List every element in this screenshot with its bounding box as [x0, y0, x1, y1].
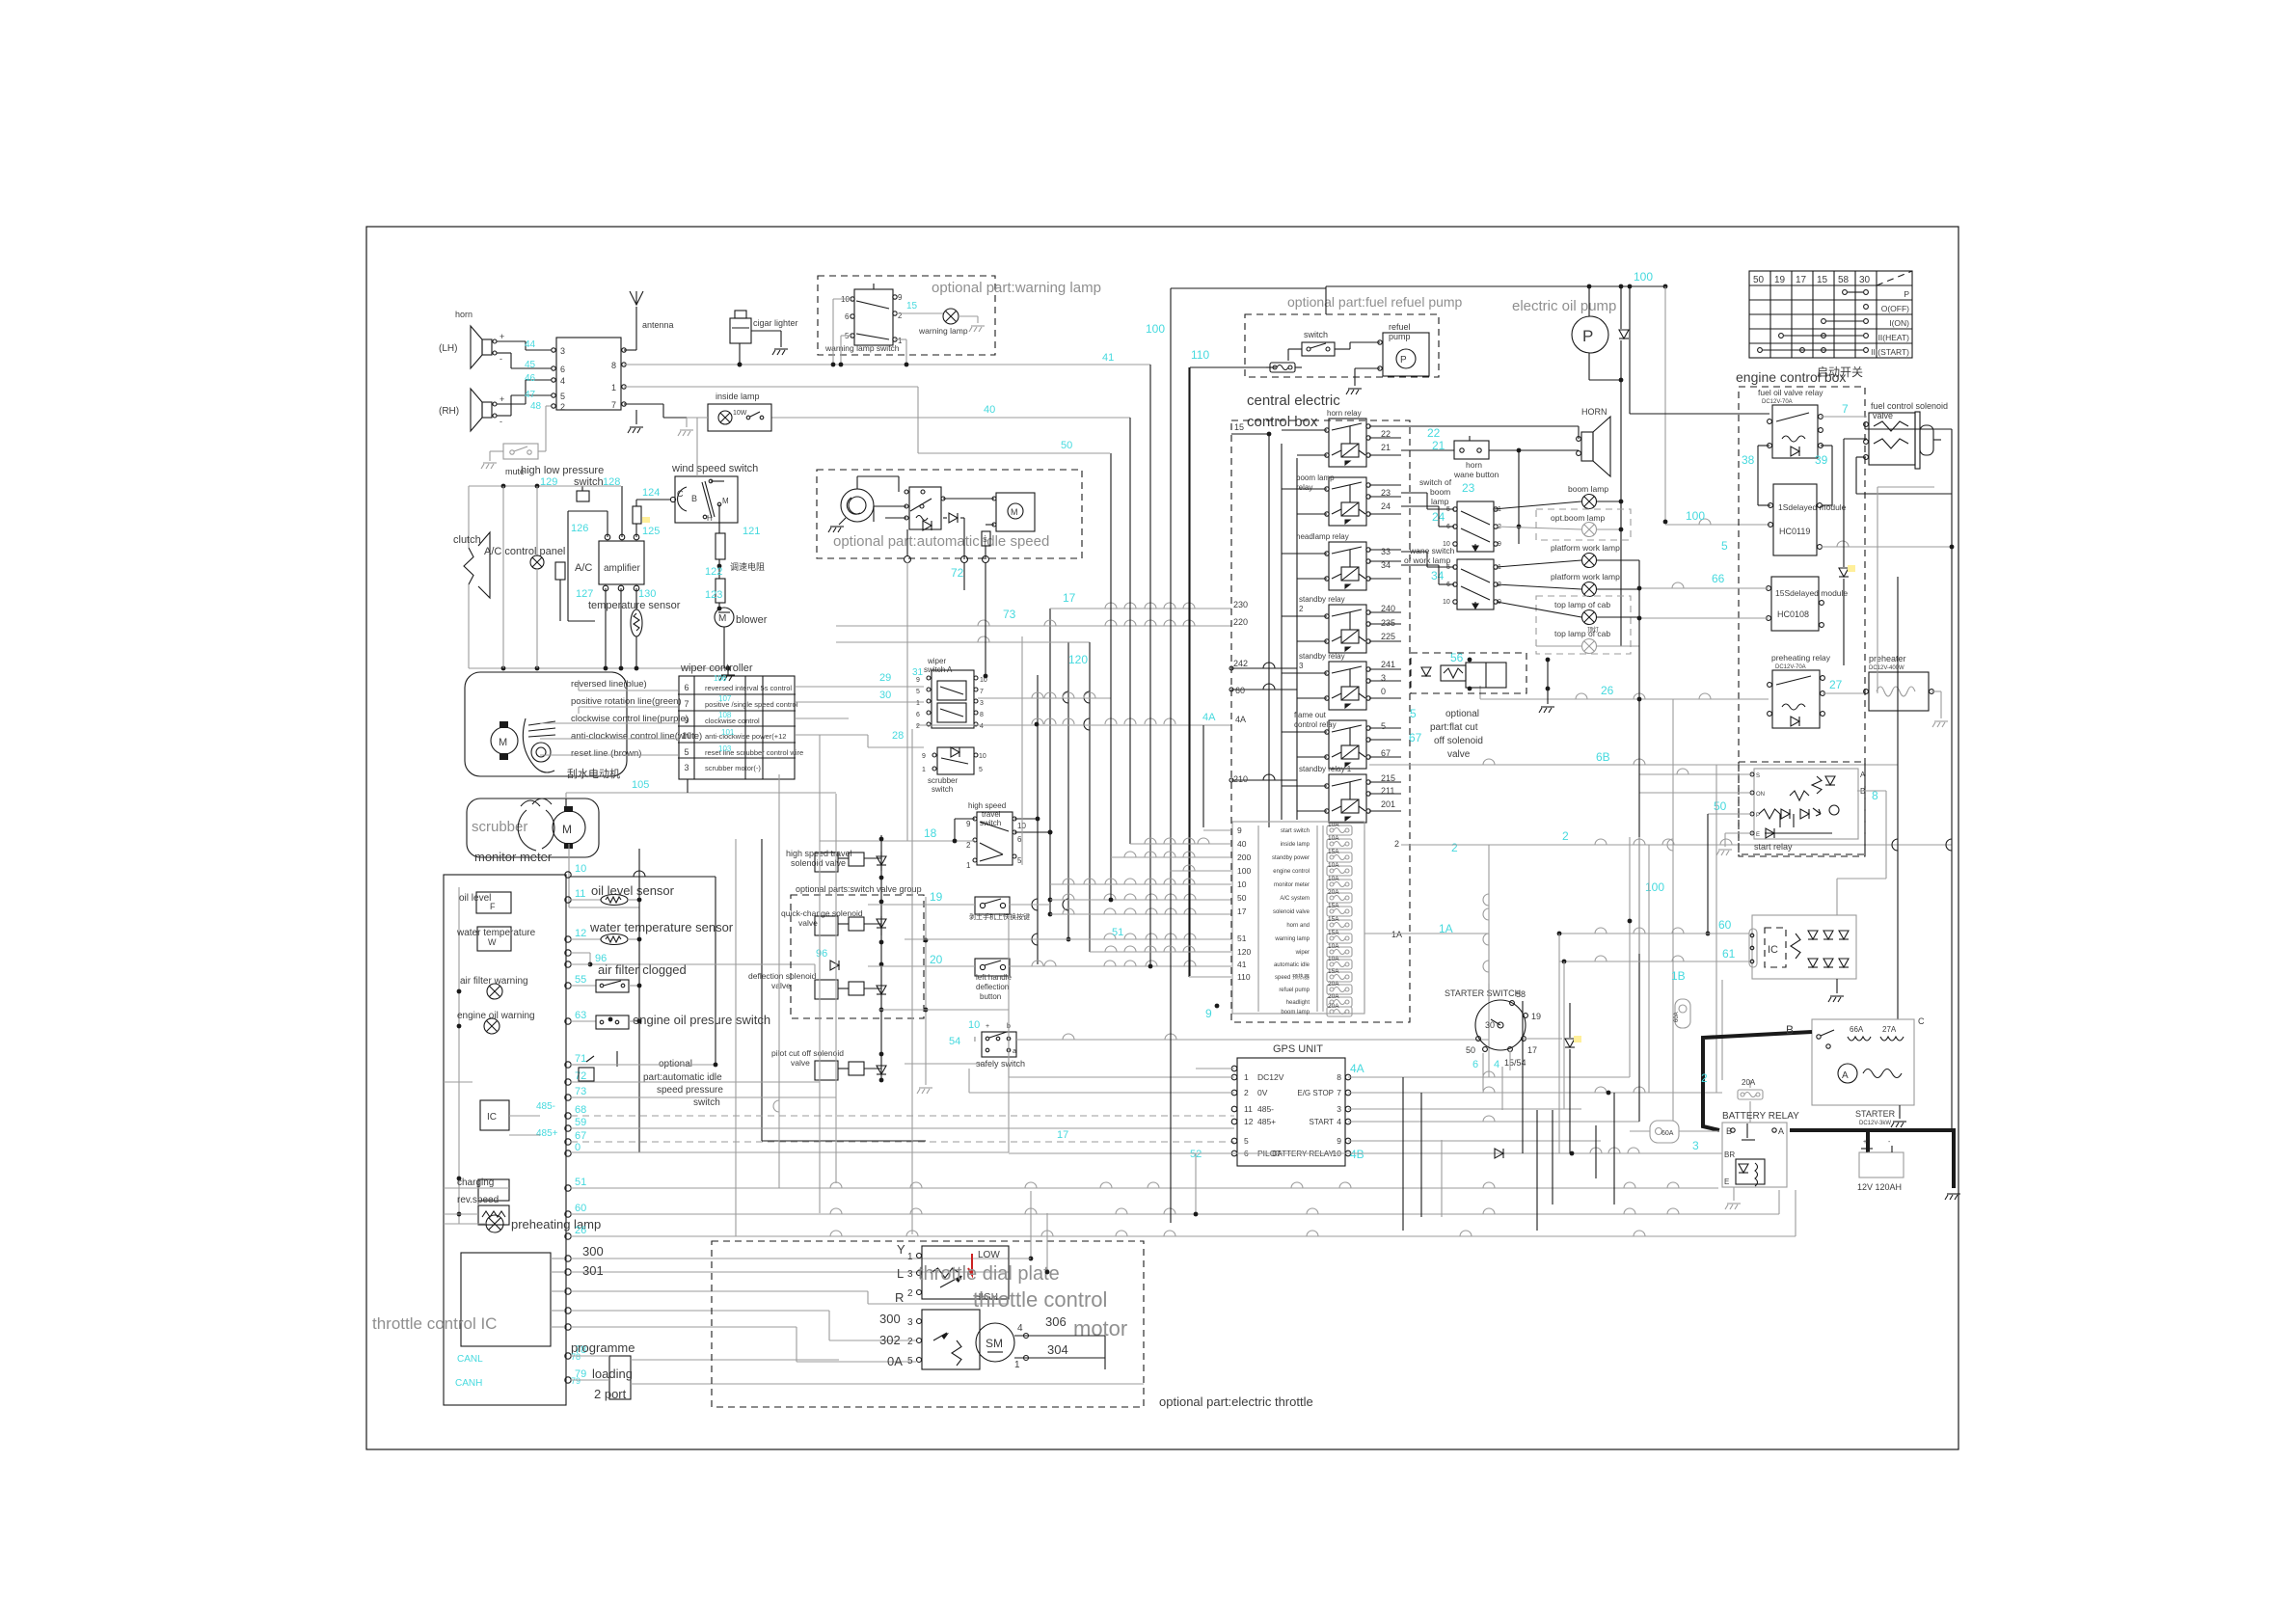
svg-text:valve: valve — [791, 1058, 810, 1068]
svg-text:speed 预热器: speed 预热器 — [1275, 973, 1310, 981]
svg-text:preheater: preheater — [1869, 654, 1906, 663]
GPS right wires — [1348, 1076, 1630, 1078]
svg-text:part:flat cut: part:flat cut — [1430, 722, 1478, 733]
amplifier bottom wires — [605, 588, 607, 668]
svg-text:15A: 15A — [1328, 968, 1339, 975]
svg-text:485-: 485- — [1257, 1104, 1274, 1114]
vertical bus x1060 — [1021, 636, 1023, 865]
svg-text:4A: 4A — [1235, 715, 1246, 724]
svg-text:60: 60 — [575, 1203, 586, 1214]
svg-text:B: B — [691, 494, 697, 503]
svg-text:45: 45 — [525, 360, 536, 370]
svg-text:M: M — [722, 497, 729, 505]
engine box bottom wires — [1639, 773, 1752, 775]
svg-text:15A: 15A — [1328, 903, 1339, 909]
svg-text:R: R — [895, 1290, 904, 1305]
svg-text:5: 5 — [1721, 539, 1728, 553]
svg-text:safely switch: safely switch — [976, 1059, 1025, 1069]
svg-text:123: 123 — [705, 589, 722, 601]
lamp collector vertical — [1638, 560, 1640, 1122]
svg-text:125: 125 — [642, 526, 660, 537]
start relay dashed box — [1739, 762, 1865, 854]
IC wires — [509, 1115, 540, 1117]
svg-text:oil level sensor: oil level sensor — [591, 883, 675, 898]
wire 71 72 73 runs — [571, 1064, 716, 1066]
wire 22 to horn — [1401, 425, 1579, 427]
1S delayed module — [1773, 484, 1817, 555]
svg-text:1: 1 — [907, 1252, 913, 1262]
bus row 120 — [836, 641, 1090, 643]
svg-text:101: 101 — [721, 728, 735, 737]
wind speed switch — [675, 476, 738, 523]
60A fusible link — [1650, 1121, 1679, 1143]
svg-text:S: S — [983, 537, 987, 544]
svg-text:platform work lamp: platform work lamp — [1551, 572, 1620, 582]
svg-text:20A: 20A — [1328, 889, 1339, 896]
svg-text:1: 1 — [1014, 1360, 1020, 1370]
opt boom lamp dashed — [1536, 509, 1631, 540]
vertical x763 — [735, 839, 737, 1236]
throttle control IC box — [461, 1253, 551, 1346]
svg-text:opt.boom lamp: opt.boom lamp — [1551, 513, 1605, 523]
svg-text:refuel: refuel — [1389, 322, 1411, 332]
svg-text:4A: 4A — [1350, 1062, 1364, 1075]
20A fuse — [1738, 1090, 1763, 1099]
bus row 73-220 — [836, 625, 1231, 627]
svg-text:B: B — [1786, 1023, 1794, 1037]
fuse panel verticals — [1316, 826, 1318, 1012]
svg-text:9: 9 — [1205, 1007, 1212, 1020]
svg-text:39: 39 — [1815, 453, 1828, 467]
wire 41 run (radio pin8 bus) — [624, 364, 1150, 365]
svg-text:4: 4 — [560, 376, 565, 386]
svg-text:charging: charging — [457, 1177, 494, 1188]
optional electric throttle dashed box — [712, 1241, 1144, 1407]
svg-text:48: 48 — [530, 401, 542, 412]
radio unit — [556, 338, 621, 410]
optional automatic idle dashed box — [817, 470, 1082, 558]
svg-text:wiper: wiper — [1295, 950, 1310, 956]
black vertical x1089 — [1049, 609, 1051, 914]
svg-text:preheating lamp: preheating lamp — [511, 1217, 601, 1232]
svg-text:4: 4 — [1494, 1059, 1499, 1070]
svg-text:230: 230 — [1233, 600, 1248, 609]
svg-text:A/C control panel: A/C control panel — [484, 546, 565, 557]
solenoid valve bottom wire — [1856, 456, 1866, 458]
svg-text:29: 29 — [879, 672, 891, 684]
ground cigar lighter area — [751, 330, 781, 332]
svg-text:E/G STOP: E/G STOP — [1297, 1089, 1334, 1097]
svg-text:6: 6 — [916, 712, 920, 718]
svg-text:button: button — [980, 992, 1001, 1001]
svg-text:15Sdelayed module: 15Sdelayed module — [1775, 588, 1848, 598]
svg-text:air filter clogged: air filter clogged — [598, 962, 687, 977]
wire 105 — [565, 798, 567, 810]
svg-text:66A: 66A — [1850, 1025, 1864, 1034]
wire horn LH+ to radio pin3 — [497, 340, 526, 342]
svg-text:50: 50 — [1714, 799, 1727, 813]
vertical bus x867 — [835, 794, 837, 1183]
svg-text:5: 5 — [560, 392, 565, 401]
svg-text:DC12V-70A: DC12V-70A — [1775, 664, 1806, 670]
wire row 1268 — [571, 1235, 1796, 1237]
svg-text:wiper controller: wiper controller — [680, 663, 753, 674]
battery relay box — [1722, 1123, 1787, 1187]
right vertical x1690 — [1629, 837, 1631, 1077]
svg-text:throttle dial plate: throttle dial plate — [918, 1263, 1060, 1285]
wiper controller box — [679, 676, 795, 779]
svg-text:warning lamp: warning lamp — [918, 326, 968, 336]
A/C panel lamp — [536, 486, 538, 556]
svg-text:ON: ON — [1756, 792, 1765, 798]
svg-text:10: 10 — [575, 863, 586, 875]
svg-text:23: 23 — [1462, 481, 1475, 495]
svg-text:60: 60 — [1718, 918, 1732, 932]
svg-text:110: 110 — [1191, 348, 1209, 362]
svg-text:wane button: wane button — [1453, 470, 1499, 479]
svg-text:121: 121 — [743, 526, 760, 537]
fuel oil valve relay loops — [1758, 445, 1769, 447]
96 jumper — [571, 952, 590, 954]
svg-text:travel: travel — [982, 810, 1001, 819]
svg-text:3: 3 — [560, 346, 565, 356]
gps drop verticals — [1522, 1001, 1524, 1153]
svg-text:9: 9 — [1237, 826, 1242, 835]
svg-text:20A: 20A — [1328, 981, 1339, 988]
svg-text:12: 12 — [1244, 1117, 1254, 1126]
svg-text:LOW: LOW — [978, 1250, 1000, 1260]
clutch — [464, 548, 473, 584]
svg-text:1: 1 — [916, 700, 920, 707]
pressure switch symbol — [577, 491, 589, 501]
svg-text:105: 105 — [632, 779, 649, 791]
svg-text:optional part:warning lamp: optional part:warning lamp — [932, 280, 1101, 296]
warning lamp — [943, 309, 959, 324]
right vertical x1735 — [1672, 699, 1674, 1121]
svg-text:switch: switch — [932, 785, 953, 794]
svg-text:215: 215 — [1381, 773, 1395, 783]
svg-text:M: M — [499, 737, 507, 748]
svg-text:20: 20 — [930, 953, 943, 966]
svg-text:26: 26 — [1601, 684, 1614, 697]
wire 34 relay to work switch — [1401, 564, 1439, 566]
svg-text:HC0108: HC0108 — [1777, 609, 1809, 619]
svg-text:300: 300 — [879, 1312, 901, 1326]
svg-text:wane switch: wane switch — [1409, 546, 1455, 555]
svg-text:6: 6 — [684, 683, 689, 692]
svg-text:50: 50 — [1466, 1045, 1475, 1055]
svg-text:304: 304 — [1047, 1342, 1068, 1357]
svg-text:anti-clockwise control line(wh: anti-clockwise control line(white) — [571, 731, 702, 742]
svg-text:wiper: wiper — [927, 657, 946, 665]
svg-text:103: 103 — [718, 744, 732, 753]
svg-text:5: 5 — [1446, 506, 1450, 513]
thick wire B — [1703, 1032, 1812, 1130]
svg-text:0: 0 — [1381, 687, 1386, 696]
svg-text:switch: switch — [1304, 330, 1328, 339]
svg-text:HC0119: HC0119 — [1779, 527, 1810, 536]
GPS left pins — [1231, 1074, 1237, 1080]
svg-text:306: 306 — [1045, 1314, 1067, 1329]
svg-text:III(START): III(START) — [1871, 347, 1909, 357]
rev speed box — [478, 1205, 509, 1225]
right vertical x1968 — [1897, 577, 1899, 1019]
svg-text:22: 22 — [1381, 429, 1391, 439]
svg-text:I(ON): I(ON) — [1889, 318, 1909, 328]
stub 242 — [1231, 667, 1297, 669]
svg-text:30: 30 — [1485, 1020, 1495, 1030]
svg-text:headlamp relay: headlamp relay — [1296, 532, 1349, 541]
svg-text:optional part:automatic idle s: optional part:automatic idle speed — [833, 533, 1049, 550]
travel switch wires — [820, 840, 975, 842]
svg-text:reversed interval 5s control: reversed interval 5s control — [705, 684, 792, 692]
svg-text:11: 11 — [575, 888, 585, 900]
valve group vertical — [880, 835, 882, 1080]
central box dashed outline — [1231, 420, 1410, 1022]
svg-text:顶灯: 顶灯 — [1587, 626, 1599, 634]
wire 8 from B — [1857, 790, 1886, 792]
svg-text:part:automatic idle: part:automatic idle — [643, 1072, 722, 1083]
svg-text:reversed line(blue): reversed line(blue) — [571, 679, 647, 690]
optional warning lamp dashed box — [818, 276, 995, 355]
svg-text:1: 1 — [922, 767, 926, 773]
monitor inner rail — [458, 887, 460, 1224]
svg-text:100: 100 — [1634, 270, 1653, 284]
wire horn RH- to radio pin5 — [497, 415, 511, 417]
optional fuel refuel pump dashed box — [1245, 314, 1439, 377]
gray vertical x1727 — [1664, 286, 1666, 522]
svg-text:(RH): (RH) — [439, 406, 459, 417]
svg-text:15A: 15A — [1328, 849, 1339, 855]
svg-text:2: 2 — [1451, 841, 1458, 854]
svg-text:235: 235 — [1381, 618, 1395, 628]
svg-text:100: 100 — [1146, 322, 1165, 336]
svg-text:6: 6 — [1472, 1059, 1478, 1070]
svg-text:inside lamp: inside lamp — [716, 392, 760, 401]
svg-text:A: A — [1842, 1070, 1849, 1081]
svg-text:2: 2 — [898, 311, 903, 320]
svg-text:9: 9 — [898, 293, 903, 302]
svg-text:clockwise control: clockwise control — [705, 717, 760, 725]
svg-text:4: 4 — [1337, 1117, 1341, 1126]
idle fuse S — [982, 531, 990, 546]
svg-text:warning lamp: warning lamp — [1274, 936, 1310, 942]
svg-text:lamp: lamp — [1431, 497, 1449, 506]
svg-text:3: 3 — [980, 700, 984, 707]
svg-text:9: 9 — [1337, 1136, 1341, 1146]
label 19 and button — [975, 897, 1010, 914]
svg-text:F: F — [490, 902, 496, 911]
vertical x790 — [761, 839, 763, 1141]
SM pin4 wire — [1024, 1334, 1029, 1339]
svg-text:108: 108 — [718, 711, 732, 719]
svg-text:5: 5 — [1381, 721, 1386, 731]
svg-text:10: 10 — [1237, 880, 1247, 889]
svg-text:2: 2 — [966, 841, 971, 850]
svg-text:10: 10 — [979, 753, 986, 760]
svg-text:4: 4 — [1017, 1323, 1023, 1334]
ground radio pin7 stub — [635, 410, 637, 424]
svg-text:optional parts:switch valve gr: optional parts:switch valve group — [796, 884, 922, 894]
svg-text:58: 58 — [1838, 275, 1850, 285]
wire radio pin7 to inside lamp — [624, 403, 663, 405]
svg-text:10A: 10A — [1328, 956, 1339, 962]
wires controller right — [796, 686, 924, 688]
inside lamp box — [708, 404, 771, 431]
wire 50 into start relay — [1708, 813, 1752, 815]
svg-text:21: 21 — [1381, 443, 1391, 452]
svg-text:water temperature sensor: water temperature sensor — [589, 920, 734, 934]
central box left rail — [1268, 434, 1270, 827]
refuel fuse — [1270, 363, 1295, 372]
svg-text:67: 67 — [1409, 731, 1422, 744]
SM pin1 wire — [1024, 1356, 1029, 1361]
svg-text:+: + — [500, 332, 504, 341]
svg-text:air filter warning: air filter warning — [460, 976, 528, 987]
diode on wire 1195 — [1009, 1152, 1494, 1154]
svg-text:300: 300 — [582, 1244, 604, 1259]
svg-text:flame out: flame out — [1294, 711, 1327, 719]
svg-text:2: 2 — [560, 402, 565, 412]
svg-text:6: 6 — [1017, 835, 1022, 844]
svg-text:M: M — [1011, 507, 1018, 517]
bus rows mid 19 51 — [868, 904, 975, 906]
svg-text:start relay: start relay — [1754, 842, 1793, 852]
wire 27 — [1823, 692, 1866, 694]
485 bus dashed — [571, 1115, 1234, 1117]
svg-text:speed pressure: speed pressure — [657, 1085, 723, 1096]
svg-text:40: 40 — [1237, 839, 1247, 849]
relay left stubs — [1282, 429, 1327, 431]
svg-text:301: 301 — [582, 1263, 604, 1278]
svg-text:20A: 20A — [1742, 1078, 1756, 1087]
bus row 4A — [916, 724, 1231, 726]
starter box — [1812, 1019, 1914, 1105]
wiper motor assembly outline — [465, 672, 627, 776]
svg-text:51: 51 — [1237, 934, 1247, 943]
svg-text:485-: 485- — [536, 1101, 555, 1112]
svg-text:4A: 4A — [1202, 712, 1216, 723]
svg-text:scrubber: scrubber — [928, 776, 958, 785]
svg-text:horn relay: horn relay — [1327, 409, 1362, 418]
svg-text:9: 9 — [1498, 541, 1501, 548]
horn wane button — [1454, 441, 1489, 459]
fuse panel outline — [1232, 822, 1364, 1014]
svg-text:E: E — [1756, 832, 1760, 838]
charging box — [478, 1179, 509, 1201]
ground A/C — [719, 675, 735, 681]
A/C left rail clutch — [468, 486, 470, 548]
svg-text:control relay: control relay — [1294, 720, 1337, 729]
svg-text:2: 2 — [907, 1288, 913, 1299]
svg-text:refuel pump: refuel pump — [1279, 988, 1310, 993]
svg-text:-: - — [500, 354, 502, 364]
svg-text:Y: Y — [897, 1242, 905, 1257]
idle verticals down — [906, 562, 908, 841]
svg-text:2: 2 — [1562, 829, 1569, 843]
svg-text:1: 1 — [966, 861, 971, 870]
svg-text:wind speed switch: wind speed switch — [671, 463, 758, 474]
svg-text:0A: 0A — [887, 1354, 903, 1368]
monitor meter outline — [444, 875, 566, 1405]
svg-text:38: 38 — [1742, 453, 1755, 467]
svg-text:GPS UNIT: GPS UNIT — [1273, 1043, 1323, 1055]
wire 24 relay to boom switch — [1401, 505, 1439, 507]
svg-text:high speed travel: high speed travel — [786, 849, 852, 858]
svg-text:H: H — [707, 514, 713, 523]
svg-text:60: 60 — [1235, 686, 1245, 695]
monitor meter terminal column — [565, 872, 571, 878]
wire 26 run — [570, 1230, 572, 1232]
svg-text:positive rotation line(green): positive rotation line(green) — [571, 696, 682, 707]
wire switch to bus x1163 — [895, 338, 906, 340]
svg-text:horn: horn — [455, 310, 473, 319]
svg-text:100: 100 — [1686, 509, 1705, 523]
svg-text:S: S — [1756, 773, 1760, 779]
svg-text:START: START — [1310, 1118, 1335, 1126]
svg-text:20A: 20A — [1328, 993, 1339, 1000]
svg-text:33: 33 — [1381, 547, 1391, 556]
svg-text:3: 3 — [1692, 1139, 1699, 1152]
wire warning switch feeds — [833, 298, 852, 300]
svg-text:225: 225 — [1381, 632, 1395, 641]
svg-text:automatic idle: automatic idle — [1274, 962, 1310, 968]
svg-text:10A: 10A — [1328, 862, 1339, 869]
svg-text:standby relay: standby relay — [1299, 652, 1345, 661]
svg-text:27: 27 — [1829, 678, 1843, 691]
svg-text:high speed: high speed — [968, 801, 1006, 810]
wire 120 vertical — [1089, 642, 1091, 952]
throttle motor SM — [922, 1310, 980, 1369]
svg-text:switch: switch — [693, 1097, 720, 1108]
svg-text:30: 30 — [1859, 275, 1871, 285]
svg-text:0V: 0V — [1257, 1088, 1268, 1097]
svg-text:DC12V-70A: DC12V-70A — [1762, 399, 1793, 405]
svg-text:C: C — [1918, 1016, 1925, 1026]
ballast resistor 调速电阻 — [716, 533, 725, 559]
svg-text:3: 3 — [1381, 673, 1386, 683]
svg-text:34: 34 — [1381, 560, 1391, 570]
wire module out — [1822, 546, 1952, 548]
svg-text:1B: 1B — [1671, 969, 1686, 983]
wire 51 run — [571, 1187, 1718, 1189]
svg-text:211: 211 — [1381, 786, 1394, 796]
idle speed motor — [996, 493, 1035, 531]
svg-text:DC12V-3kW: DC12V-3kW — [1859, 1121, 1891, 1126]
svg-text:19: 19 — [1774, 275, 1786, 285]
svg-text:58: 58 — [1516, 989, 1526, 999]
wane switch of work lamp — [1453, 559, 1498, 609]
GPS right pins — [1345, 1074, 1351, 1080]
svg-text:18: 18 — [924, 826, 937, 840]
svg-text:switch of: switch of — [1419, 477, 1452, 487]
svg-text:monitor meter: monitor meter — [1274, 882, 1310, 888]
wiper wires motor-controller — [579, 690, 678, 691]
svg-text:7: 7 — [1842, 402, 1849, 416]
svg-text:9: 9 — [966, 820, 971, 828]
wire 110 corner — [1189, 367, 1191, 976]
alternator wires — [1559, 933, 1749, 934]
svg-text:63: 63 — [575, 1010, 586, 1021]
ground flat cut — [1547, 660, 1549, 704]
svg-text:17: 17 — [1063, 591, 1076, 605]
svg-text:240: 240 — [1381, 604, 1395, 613]
starter sw wires — [1488, 984, 1490, 1001]
svg-text:59: 59 — [575, 1117, 586, 1128]
starter sw stubs — [1482, 1053, 1484, 1091]
svg-text:10A: 10A — [1328, 943, 1339, 950]
antenna — [624, 349, 636, 351]
